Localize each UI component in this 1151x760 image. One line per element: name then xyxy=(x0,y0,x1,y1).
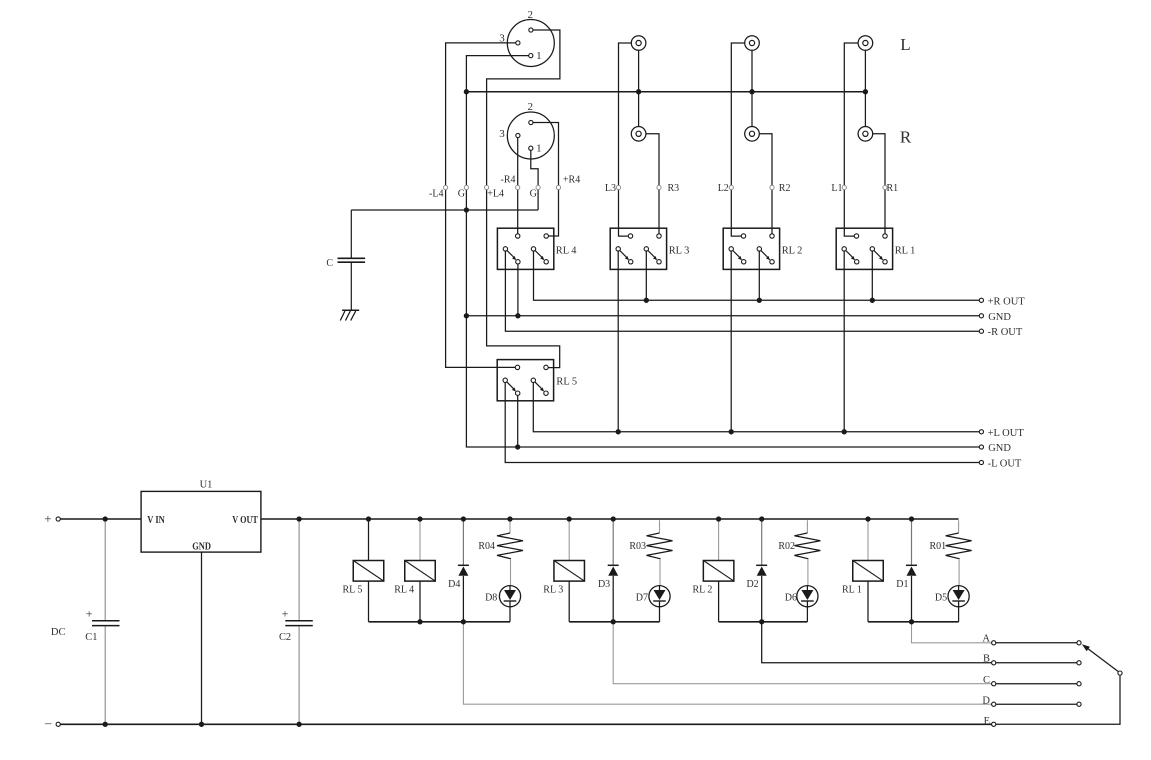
svg-text:RL 1: RL 1 xyxy=(895,246,916,257)
svg-text:D2: D2 xyxy=(746,579,758,590)
svg-text:D7: D7 xyxy=(636,592,648,603)
svg-text:3: 3 xyxy=(499,128,505,140)
svg-text:RL 4: RL 4 xyxy=(556,246,577,257)
svg-text:GND: GND xyxy=(988,443,1011,454)
svg-text:RL 5: RL 5 xyxy=(556,377,577,388)
svg-text:RL 3: RL 3 xyxy=(543,585,563,596)
svg-text:-R4: -R4 xyxy=(501,174,516,185)
svg-text:D8: D8 xyxy=(485,592,497,603)
svg-text:-R OUT: -R OUT xyxy=(988,327,1023,338)
svg-text:L3: L3 xyxy=(605,183,616,194)
svg-text:–: – xyxy=(44,715,52,730)
svg-text:C2: C2 xyxy=(279,632,291,643)
svg-text:D5: D5 xyxy=(935,592,947,603)
svg-text:D: D xyxy=(982,695,990,706)
svg-text:C: C xyxy=(326,258,333,269)
svg-text:GND: GND xyxy=(192,542,211,553)
svg-text:+L OUT: +L OUT xyxy=(988,428,1025,439)
svg-text:U1: U1 xyxy=(200,479,213,490)
svg-text:+: + xyxy=(44,511,51,526)
svg-text:R01: R01 xyxy=(930,541,947,552)
svg-text:D6: D6 xyxy=(785,592,797,603)
svg-text:D1: D1 xyxy=(896,579,908,590)
svg-text:L: L xyxy=(900,35,910,54)
svg-text:RL 2: RL 2 xyxy=(693,585,713,596)
svg-text:2: 2 xyxy=(528,101,534,113)
svg-text:+: + xyxy=(282,607,289,621)
svg-text:RL 2: RL 2 xyxy=(782,246,803,257)
svg-text:R03: R03 xyxy=(629,541,646,552)
svg-text:3: 3 xyxy=(499,33,505,45)
svg-text:A: A xyxy=(982,633,990,644)
svg-text:GND: GND xyxy=(988,312,1011,323)
svg-text:V OUT: V OUT xyxy=(232,515,258,526)
svg-text:G: G xyxy=(530,188,537,199)
svg-text:L2: L2 xyxy=(718,183,729,194)
svg-text:R2: R2 xyxy=(779,183,791,194)
svg-text:+R4: +R4 xyxy=(563,174,580,185)
svg-text:+L4: +L4 xyxy=(487,189,504,200)
svg-text:RL 1: RL 1 xyxy=(842,585,862,596)
svg-text:RL 3: RL 3 xyxy=(669,246,690,257)
svg-text:R1: R1 xyxy=(887,183,899,194)
svg-text:B: B xyxy=(983,654,990,665)
svg-text:-L4: -L4 xyxy=(429,188,443,199)
svg-text:1: 1 xyxy=(536,50,542,62)
svg-text:1: 1 xyxy=(536,143,542,155)
svg-text:C: C xyxy=(983,675,990,686)
svg-text:C1: C1 xyxy=(85,632,97,643)
svg-text:G: G xyxy=(458,188,465,199)
svg-text:E: E xyxy=(984,716,990,727)
svg-text:DC: DC xyxy=(51,627,66,638)
svg-text:R02: R02 xyxy=(778,541,795,552)
svg-text:RL 4: RL 4 xyxy=(394,585,414,596)
svg-text:+: + xyxy=(86,607,93,621)
svg-text:V IN: V IN xyxy=(147,515,165,526)
svg-text:L1: L1 xyxy=(831,183,842,194)
svg-text:+R OUT: +R OUT xyxy=(988,297,1026,308)
svg-text:R04: R04 xyxy=(478,541,495,552)
svg-text:R3: R3 xyxy=(668,183,680,194)
svg-text:R: R xyxy=(900,127,912,146)
svg-text:2: 2 xyxy=(528,9,534,21)
svg-text:D3: D3 xyxy=(598,579,610,590)
svg-text:-L OUT: -L OUT xyxy=(988,458,1022,469)
svg-text:D4: D4 xyxy=(448,579,460,590)
svg-text:RL 5: RL 5 xyxy=(343,585,363,596)
